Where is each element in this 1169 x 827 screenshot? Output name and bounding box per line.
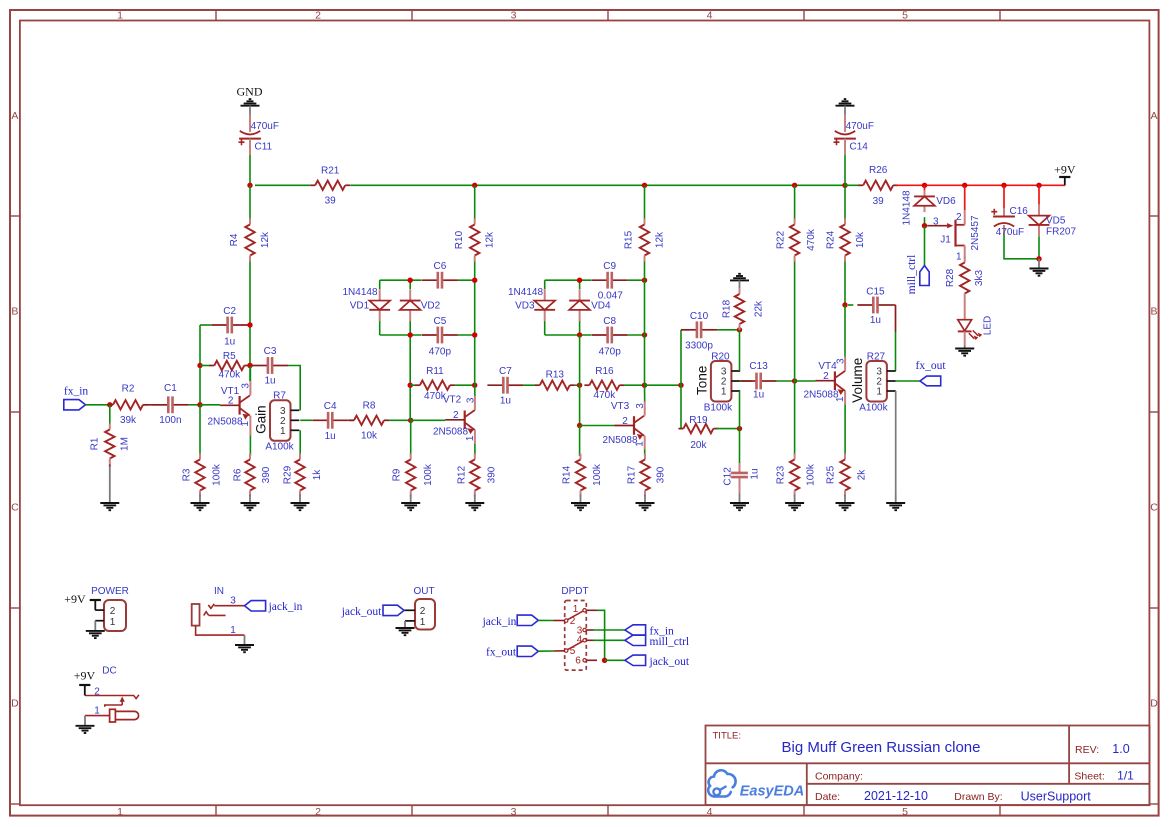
junction xyxy=(577,332,582,337)
wire xyxy=(1038,236,1040,258)
svg-text:Tone: Tone xyxy=(694,366,709,395)
svg-text:R22: R22 xyxy=(775,230,786,249)
svg-text:1u: 1u xyxy=(224,337,235,348)
wire xyxy=(644,335,646,385)
svg-text:EasyEDA: EasyEDA xyxy=(740,784,804,800)
svg-text:R5: R5 xyxy=(223,351,236,362)
wire xyxy=(86,404,110,406)
wire xyxy=(739,324,741,330)
svg-text:C: C xyxy=(1150,502,1158,514)
svg-text:12k: 12k xyxy=(654,231,665,248)
wire xyxy=(895,332,897,371)
wire xyxy=(348,419,354,421)
ground xyxy=(730,274,749,292)
svg-text:C6: C6 xyxy=(434,261,447,272)
resistor R10 xyxy=(454,219,496,262)
resistor R22 xyxy=(775,219,817,262)
svg-text:470k: 470k xyxy=(218,369,241,380)
svg-text:R13: R13 xyxy=(546,370,565,381)
svg-text:R8: R8 xyxy=(363,400,376,411)
svg-text:C15: C15 xyxy=(866,286,885,297)
wire xyxy=(200,404,220,406)
svg-text:470uF: 470uF xyxy=(996,227,1024,238)
svg-text:Company:: Company: xyxy=(815,771,863,783)
net flag jack_in xyxy=(482,615,539,628)
svg-text:R1: R1 xyxy=(90,437,101,450)
resistor R23 xyxy=(775,454,816,497)
junction xyxy=(642,332,647,337)
svg-text:R11: R11 xyxy=(426,366,444,377)
svg-text:4: 4 xyxy=(577,634,583,645)
svg-text:jack_in: jack_in xyxy=(482,616,517,628)
svg-text:R9: R9 xyxy=(391,468,402,481)
wire xyxy=(544,321,546,335)
capacitor C13 xyxy=(741,361,777,401)
wire xyxy=(681,385,683,428)
wire xyxy=(794,185,796,218)
svg-text:2N5088: 2N5088 xyxy=(803,390,838,401)
wire xyxy=(409,280,411,289)
ground xyxy=(785,495,804,511)
wire xyxy=(455,384,475,386)
junction xyxy=(472,278,477,283)
wire xyxy=(586,639,593,641)
ground xyxy=(76,716,95,733)
wire xyxy=(628,279,645,281)
svg-text:VD2: VD2 xyxy=(421,301,441,312)
svg-text:A: A xyxy=(1150,110,1157,122)
junction xyxy=(642,278,647,283)
svg-text:3300p: 3300p xyxy=(685,340,713,351)
wire xyxy=(300,419,312,421)
svg-text:1: 1 xyxy=(110,617,116,628)
capacitor C6 xyxy=(422,261,458,288)
svg-text:D: D xyxy=(11,698,19,710)
potentiometer R20 xyxy=(694,351,740,413)
svg-text:3: 3 xyxy=(511,10,517,22)
junction xyxy=(472,383,477,388)
wire xyxy=(410,384,415,386)
svg-text:2: 2 xyxy=(228,396,234,407)
resistor R1 xyxy=(90,424,131,465)
svg-text:Drawn By:: Drawn By: xyxy=(954,791,1002,803)
resistor R4 xyxy=(229,219,271,262)
resistor R29 xyxy=(282,454,323,497)
wire +9V net xyxy=(896,184,1065,186)
wire xyxy=(644,185,646,218)
svg-text:3: 3 xyxy=(230,596,236,607)
svg-text:A100k: A100k xyxy=(859,402,888,413)
wire xyxy=(188,404,200,406)
wire xyxy=(597,610,605,660)
svg-text:20k: 20k xyxy=(690,440,707,451)
svg-text:470uF: 470uF xyxy=(846,121,874,132)
svg-text:1u: 1u xyxy=(870,315,881,326)
wire xyxy=(579,426,581,457)
svg-text:VD1: VD1 xyxy=(350,301,370,312)
wire xyxy=(554,620,565,622)
svg-text:6: 6 xyxy=(575,656,581,667)
wire xyxy=(795,380,816,382)
net flag mill_ctrl xyxy=(625,635,689,648)
wire xyxy=(794,262,796,382)
wire +9V net xyxy=(964,185,966,210)
svg-text:2: 2 xyxy=(315,806,321,818)
wire xyxy=(199,405,201,456)
wire xyxy=(740,380,753,382)
ground xyxy=(86,621,105,638)
svg-text:Date:: Date: xyxy=(815,791,840,803)
wire xyxy=(523,384,535,386)
diode VD5 xyxy=(1029,204,1050,236)
ground xyxy=(191,495,210,511)
resistor R2 xyxy=(108,384,148,427)
wire xyxy=(739,330,741,371)
ground xyxy=(836,495,855,511)
wire xyxy=(739,489,741,493)
wire xyxy=(474,385,476,396)
junction xyxy=(472,183,477,188)
wire xyxy=(645,384,682,386)
svg-text:100n: 100n xyxy=(159,415,181,426)
capacitor C16 xyxy=(991,206,1028,238)
svg-text:2N5088: 2N5088 xyxy=(602,435,637,446)
wire xyxy=(474,430,476,444)
svg-text:VD5: VD5 xyxy=(1046,216,1066,227)
connector DC jack xyxy=(85,666,139,723)
svg-text:2N5088: 2N5088 xyxy=(433,427,468,438)
diode VD2 xyxy=(400,289,421,321)
svg-text:390: 390 xyxy=(261,466,272,483)
svg-text:mill_ctrl: mill_ctrl xyxy=(906,255,918,295)
svg-text:1: 1 xyxy=(94,705,100,716)
svg-text:39: 39 xyxy=(325,196,337,207)
wire +9V net xyxy=(1038,185,1040,209)
svg-text:5: 5 xyxy=(902,10,908,22)
svg-text:VT3: VT3 xyxy=(611,401,630,412)
junction xyxy=(737,426,742,431)
wire xyxy=(628,334,645,336)
resistor R15 xyxy=(624,219,666,262)
wire xyxy=(644,450,646,457)
wire xyxy=(844,391,846,405)
svg-text:R25: R25 xyxy=(826,465,837,484)
wire xyxy=(579,280,581,289)
net flag jack_out xyxy=(625,655,690,668)
svg-text:100k: 100k xyxy=(806,463,817,486)
svg-text:REV:: REV: xyxy=(1075,744,1099,756)
connector IN jack xyxy=(192,586,245,636)
potentiometer R7 xyxy=(253,391,299,453)
transistor J1 xyxy=(927,210,981,263)
svg-text:mill_ctrl: mill_ctrl xyxy=(650,636,690,648)
junction xyxy=(197,402,202,407)
junction xyxy=(577,278,582,283)
svg-text:1: 1 xyxy=(634,441,645,447)
ground xyxy=(291,495,310,511)
svg-text:fx_in: fx_in xyxy=(64,386,89,398)
svg-text:3k3: 3k3 xyxy=(974,270,985,287)
svg-text:Volume: Volume xyxy=(850,358,865,403)
svg-text:1: 1 xyxy=(240,421,251,427)
svg-text:2021-12-10: 2021-12-10 xyxy=(864,789,928,803)
ground xyxy=(396,621,415,635)
wire xyxy=(893,304,895,306)
svg-text:R23: R23 xyxy=(775,465,786,484)
junction xyxy=(107,402,112,407)
svg-text:4: 4 xyxy=(707,10,713,22)
wire xyxy=(739,429,741,466)
svg-text:R3: R3 xyxy=(182,468,193,481)
power flag +9V xyxy=(74,669,96,696)
svg-text:+9V: +9V xyxy=(1054,162,1076,176)
svg-text:C11: C11 xyxy=(255,141,273,152)
capacitor C7 xyxy=(487,366,523,407)
ground xyxy=(730,493,749,510)
svg-text:100k: 100k xyxy=(423,463,434,486)
wire xyxy=(200,324,212,326)
svg-text:470k: 470k xyxy=(594,390,617,401)
svg-text:0.047: 0.047 xyxy=(598,291,623,302)
wire xyxy=(717,329,740,331)
junction xyxy=(408,418,413,423)
net flag fx_in xyxy=(64,386,89,410)
svg-text:1: 1 xyxy=(721,387,727,398)
junction xyxy=(247,363,252,368)
svg-text:1N4148: 1N4148 xyxy=(902,190,913,225)
wire xyxy=(458,279,475,281)
svg-text:C1: C1 xyxy=(164,383,177,394)
junction xyxy=(737,327,742,332)
resistor R6 xyxy=(232,454,272,497)
wire xyxy=(575,384,580,386)
svg-text:1u: 1u xyxy=(264,375,275,386)
wire xyxy=(458,334,475,336)
wire xyxy=(474,444,476,456)
transistor VT2 xyxy=(433,394,476,441)
wire xyxy=(844,405,846,457)
wire xyxy=(1004,234,1039,259)
svg-text:39: 39 xyxy=(873,196,885,207)
svg-text:12k: 12k xyxy=(485,231,496,248)
svg-text:DPDT: DPDT xyxy=(561,586,588,597)
wire xyxy=(580,425,615,427)
svg-text:B: B xyxy=(11,306,18,318)
svg-text:C14: C14 xyxy=(850,141,869,152)
wire xyxy=(716,428,739,430)
svg-text:R18: R18 xyxy=(722,299,733,318)
svg-text:TITLE:: TITLE: xyxy=(713,730,742,741)
wire xyxy=(249,416,251,436)
svg-text:GND: GND xyxy=(237,85,263,99)
resistor R16 xyxy=(584,366,624,401)
wire xyxy=(844,185,846,218)
svg-text:1N4148: 1N4148 xyxy=(342,287,377,298)
capacitor C3 xyxy=(252,346,288,387)
wire xyxy=(579,335,581,385)
svg-text:R4: R4 xyxy=(229,233,240,246)
wire xyxy=(474,396,476,410)
svg-text:470p: 470p xyxy=(429,346,452,357)
svg-text:A100k: A100k xyxy=(265,442,294,453)
wire xyxy=(848,304,853,306)
wire xyxy=(249,262,251,382)
wire xyxy=(249,185,251,218)
svg-text:390: 390 xyxy=(486,466,497,483)
transistor VT1 xyxy=(207,383,251,428)
svg-text:10k: 10k xyxy=(361,431,378,442)
svg-text:22k: 22k xyxy=(754,300,765,317)
resistor R26 xyxy=(858,165,898,207)
wire xyxy=(474,335,476,385)
junction xyxy=(408,332,413,337)
diode VD3 xyxy=(534,289,555,321)
wire xyxy=(896,380,920,382)
wire +9V net xyxy=(1003,185,1005,208)
connector OUT xyxy=(404,586,435,630)
svg-text:jack_out: jack_out xyxy=(649,656,690,668)
svg-text:DC: DC xyxy=(102,666,116,677)
svg-text:C13: C13 xyxy=(749,361,768,372)
ground xyxy=(836,99,855,115)
wire xyxy=(545,279,592,281)
junction xyxy=(408,383,413,388)
capacitor C11 xyxy=(239,115,279,155)
svg-text:C7: C7 xyxy=(499,366,512,377)
svg-text:2: 2 xyxy=(453,410,459,421)
svg-text:390: 390 xyxy=(656,466,667,483)
svg-text:C: C xyxy=(11,502,19,514)
potentiometer R27 xyxy=(850,351,896,413)
svg-text:39k: 39k xyxy=(120,415,137,426)
svg-text:R17: R17 xyxy=(627,465,638,484)
junction xyxy=(642,383,647,388)
svg-text:C2: C2 xyxy=(223,306,236,317)
EasyEDA logo xyxy=(708,770,804,799)
svg-text:10k: 10k xyxy=(855,231,866,248)
junction xyxy=(247,183,252,188)
svg-text:POWER: POWER xyxy=(91,586,129,597)
ground xyxy=(241,99,260,115)
junction xyxy=(922,223,927,228)
svg-text:1: 1 xyxy=(573,604,579,615)
resistor R17 xyxy=(627,454,667,497)
svg-text:1N4148: 1N4148 xyxy=(508,287,543,298)
svg-text:LED: LED xyxy=(983,316,994,335)
wire xyxy=(579,385,581,425)
svg-text:R6: R6 xyxy=(232,468,243,481)
wire xyxy=(681,329,689,331)
wire xyxy=(380,334,422,336)
junction xyxy=(602,658,607,663)
wire xyxy=(474,262,476,281)
svg-text:4: 4 xyxy=(707,806,713,818)
svg-text:R2: R2 xyxy=(122,384,135,395)
svg-text:fx_out: fx_out xyxy=(915,360,946,372)
junction xyxy=(577,383,582,388)
svg-text:470k: 470k xyxy=(806,228,817,251)
junction xyxy=(678,383,683,388)
resistor R5 xyxy=(209,351,249,381)
capacitor C5 xyxy=(422,316,458,357)
junction xyxy=(842,183,847,188)
wire xyxy=(545,334,592,336)
ground xyxy=(886,494,905,510)
svg-text:UserSupport: UserSupport xyxy=(1021,790,1092,804)
junction xyxy=(1036,183,1041,188)
svg-text:jack_in: jack_in xyxy=(268,601,303,613)
svg-text:2N5457: 2N5457 xyxy=(970,215,981,250)
junction xyxy=(642,183,647,188)
svg-text:2: 2 xyxy=(622,416,628,427)
ground xyxy=(241,495,260,511)
svg-text:470uF: 470uF xyxy=(251,121,279,132)
transistor VT4 xyxy=(803,358,846,402)
capacitor C15 xyxy=(857,286,893,326)
capacitor C14 xyxy=(834,115,874,155)
ground xyxy=(401,495,420,511)
svg-text:Big Muff Green Russian clone: Big Muff Green Russian clone xyxy=(782,739,981,756)
ground xyxy=(1030,259,1049,276)
transistor VT3 xyxy=(602,401,645,447)
svg-text:C4: C4 xyxy=(324,401,337,412)
svg-text:1: 1 xyxy=(956,252,962,263)
svg-text:1/1: 1/1 xyxy=(1117,769,1134,783)
resistor R9 xyxy=(391,454,434,497)
junction xyxy=(197,363,202,368)
ground xyxy=(465,495,484,511)
LED VD7 xyxy=(958,300,994,346)
net flag jack_in xyxy=(245,601,303,613)
ground xyxy=(636,495,655,511)
wire xyxy=(844,305,846,357)
wire xyxy=(200,365,210,367)
wire xyxy=(350,184,845,186)
net flag fx_in xyxy=(625,625,674,638)
svg-text:2: 2 xyxy=(110,606,116,617)
capacitor C12 xyxy=(723,463,761,489)
junction xyxy=(247,322,252,327)
svg-text:2: 2 xyxy=(315,10,321,22)
svg-text:1u: 1u xyxy=(500,395,511,406)
svg-text:3: 3 xyxy=(933,217,939,228)
svg-text:3: 3 xyxy=(511,806,517,818)
svg-text:C3: C3 xyxy=(264,346,277,357)
svg-text:R16: R16 xyxy=(595,366,614,377)
junction xyxy=(408,278,413,283)
svg-text:2: 2 xyxy=(956,212,962,223)
wire xyxy=(288,366,300,411)
junction xyxy=(792,183,797,188)
svg-text:R21: R21 xyxy=(321,166,340,177)
wire xyxy=(777,380,795,382)
svg-text:J1: J1 xyxy=(940,235,951,246)
wire xyxy=(410,420,412,456)
wire xyxy=(255,184,310,186)
capacitor C8 xyxy=(592,316,628,357)
svg-text:1M: 1M xyxy=(120,437,131,451)
svg-text:1.0: 1.0 xyxy=(1112,742,1129,756)
junction xyxy=(247,363,252,368)
wire xyxy=(586,629,593,631)
svg-text:1: 1 xyxy=(117,10,123,22)
ground xyxy=(235,635,254,652)
svg-text:Gain: Gain xyxy=(253,405,268,434)
wire xyxy=(594,629,625,631)
svg-text:R20: R20 xyxy=(711,351,730,362)
svg-text:R15: R15 xyxy=(624,230,635,249)
capacitor C1 xyxy=(152,383,188,426)
